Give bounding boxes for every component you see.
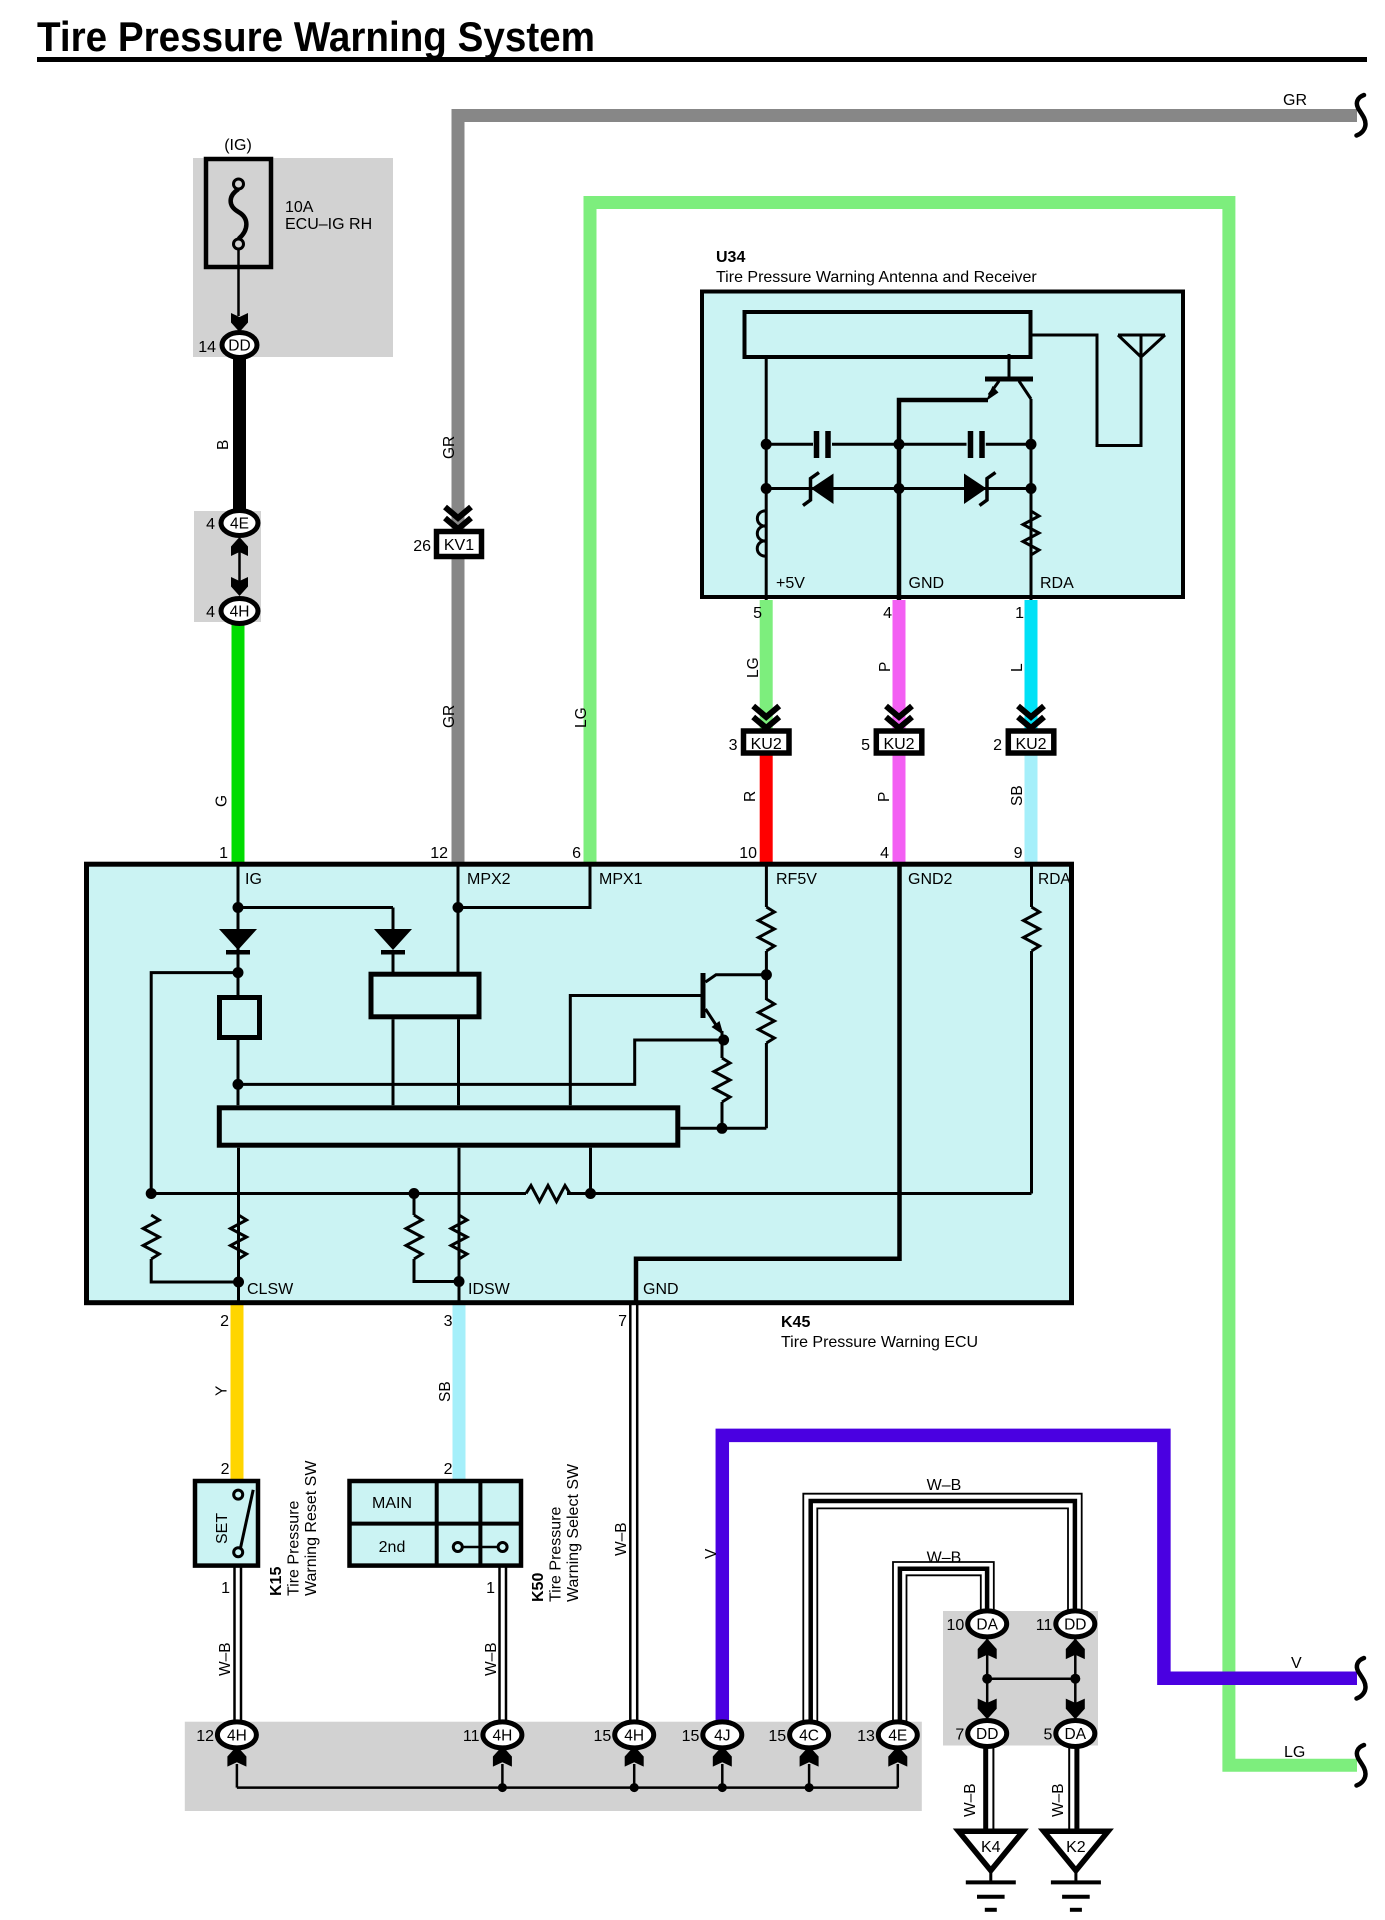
svg-text:DA: DA [976,1616,998,1633]
arrow into KU2 no.3 [753,706,779,728]
svg-text:SET: SET [214,1513,231,1544]
U34 GND vertical line [899,400,988,600]
wire W-B K50 to 11 4H [498,1565,501,1723]
ground K2 symbol [1074,1871,1077,1883]
node CLSW junction [233,1277,244,1288]
svg-text:11: 11 [463,1728,480,1745]
K15 SET switch box [195,1481,258,1566]
wire RDA horizontal row [567,1192,1032,1195]
svg-text:3: 3 [444,1313,453,1330]
svg-text:Tire Pressure: Tire Pressure [548,1506,565,1602]
U34 capacitor C2 [968,431,974,458]
wire LG U34 pin5 to KU2 [760,600,773,731]
connector 15 4J [703,1722,742,1748]
svg-text:LG: LG [745,657,762,678]
connector 4 4H [221,599,258,624]
arrow into DD [231,313,248,332]
svg-text:W–B: W–B [927,1550,962,1567]
connector 5 KU2 [876,731,922,753]
U34 inductor L1 [757,511,766,556]
svg-text:4H: 4H [492,1727,512,1744]
svg-text:14: 14 [198,339,216,356]
connector 15 4C [790,1722,829,1748]
U34 capacitor row line [766,443,813,446]
svg-text:GR: GR [441,436,458,459]
band1 bus junction dots [498,1783,507,1792]
K45 resistor R6 [143,1215,159,1259]
band2 arrows up [978,1639,997,1660]
wire L U34 pin1 to KU2 [1025,600,1038,731]
K45 square block [220,998,260,1038]
gray background behind fuse [193,158,393,357]
U34 transistor Q1 [1008,354,1011,378]
svg-text:W–B: W–B [962,1783,979,1817]
node IG junction 3 [233,1079,244,1090]
svg-text:2: 2 [993,737,1002,754]
svg-text:SB: SB [437,1381,454,1402]
svg-text:SB: SB [1009,785,1026,806]
svg-text:KU2: KU2 [1015,736,1046,753]
svg-text:DD: DD [1064,1616,1086,1633]
node IDSW junction [454,1276,465,1287]
double arrow between 4E and 4H [231,537,248,556]
node IG junction 2 [233,967,244,978]
K50 cell dividers [435,1481,439,1566]
K45 Tire Pressure Warning ECU box [87,864,1072,1302]
K45 GND2 wire [636,866,900,1301]
wire square block to bus [237,1040,240,1105]
U34 antenna symbol [1118,334,1165,337]
K15 contact top [234,1490,243,1499]
svg-text:1: 1 [219,845,228,862]
U34 RDA vertical line [1030,399,1033,600]
svg-text:13: 13 [857,1728,875,1745]
off-page squiggle V [1357,1658,1366,1699]
svg-text:B: B [215,440,232,450]
connector 13 4E [878,1722,917,1748]
svg-text:4: 4 [883,605,892,622]
connector 12 4H [217,1722,256,1748]
wire transistor base to bus [570,996,700,1106]
svg-text:1: 1 [1015,605,1024,622]
svg-text:W–B: W–B [1050,1783,1067,1817]
wire SB (pale blue) IDSW to K50 [453,1305,466,1480]
band2 junction dots [982,1674,992,1684]
svg-text:DA: DA [1065,1726,1087,1743]
connector 11 DD [1056,1611,1095,1637]
node left row junction [146,1188,157,1199]
K45 MPX1 wire [458,866,590,908]
K45 bus bar block [219,1108,678,1145]
svg-text:W–B: W–B [483,1642,500,1676]
svg-text:4E: 4E [230,516,249,533]
svg-text:IDSW: IDSW [468,1281,511,1298]
K50 select switch box [350,1481,522,1566]
wire W-B K15 to 12 4H [233,1565,236,1723]
wire SB KU2 to K45 RDA [1025,752,1038,864]
U34 RDA resistor [1023,511,1039,555]
svg-text:Warning Select SW: Warning Select SW [565,1463,582,1602]
svg-text:CLSW: CLSW [247,1281,294,1298]
wire diode D4 branch vertical [392,908,395,931]
connector 7 DD [968,1721,1007,1747]
node RF5V junction [761,969,772,980]
svg-text:2nd: 2nd [379,1539,406,1556]
svg-text:12: 12 [430,845,448,862]
K45 diode D4 [374,929,412,950]
svg-text:MAIN: MAIN [372,1495,412,1512]
band1 ground bus line [237,1786,898,1789]
svg-text:IG: IG [245,871,262,888]
svg-text:2: 2 [220,1313,229,1330]
svg-text:5: 5 [1043,1727,1052,1744]
connector 26 KV1 [437,532,482,557]
svg-text:W–B: W–B [613,1522,630,1556]
node IG junction 1 [233,902,244,913]
svg-text:RDA: RDA [1038,871,1071,888]
wire V (violet) 4J up, right, down, to off-page [722,1435,1357,1723]
svg-text:4: 4 [206,516,215,533]
svg-text:11: 11 [1036,1617,1053,1634]
ground K4 symbol [989,1871,992,1883]
svg-text:4: 4 [880,845,889,862]
K45 transistor Q2 [701,973,706,1018]
ground K4 triangle [959,1831,1023,1870]
svg-text:1: 1 [486,1580,495,1597]
wire bus to row junction [589,1148,592,1194]
connector 15 4H [615,1722,654,1748]
connector 4 4E [221,511,258,536]
svg-text:KU2: KU2 [883,736,914,753]
gray band bottom-left connector row [185,1722,922,1811]
wires wide block to bus [392,1019,395,1105]
K45 IG vertical wire [237,866,240,996]
fuse terminal top [234,179,244,189]
svg-text:4H: 4H [624,1727,644,1744]
svg-text:26: 26 [413,538,431,555]
svg-text:DD: DD [976,1726,998,1743]
svg-text:Tire Pressure Warning System: Tire Pressure Warning System [37,13,595,60]
svg-text:10: 10 [739,845,757,862]
K15 contact bottom [234,1548,243,1557]
svg-text:6: 6 [572,845,581,862]
K45 diode D3 [219,929,257,950]
svg-text:K45: K45 [781,1314,810,1331]
svg-text:P: P [877,662,894,672]
svg-text:1: 1 [221,1580,230,1597]
arrow into KU2 no.5 [886,706,912,728]
svg-text:12: 12 [196,1728,214,1745]
K50 2nd contact pair [462,1546,498,1549]
wire W-B 5 DA to ground K2 [1068,1747,1070,1832]
K45 resistor R9 [451,1215,467,1259]
U34 capacitor C1 [814,431,820,458]
wire long horizontal to transistor emitter [238,1040,724,1084]
connector 2 KU2 [1008,731,1054,753]
svg-text:4H: 4H [230,604,250,621]
svg-text:2: 2 [444,1461,453,1478]
svg-text:K4: K4 [981,1839,1001,1856]
svg-text:15: 15 [768,1728,786,1745]
svg-text:Warning Reset SW: Warning Reset SW [303,1460,320,1596]
svg-text:GR: GR [1283,92,1307,109]
svg-text:4C: 4C [799,1727,819,1744]
svg-text:V: V [703,1548,720,1559]
svg-text:4E: 4E [888,1727,907,1744]
wire W-B GND pin7 to 15 4H [629,1305,632,1723]
svg-text:K2: K2 [1066,1839,1086,1856]
svg-text:L: L [1009,663,1026,672]
wire P KU2 to K45 GND2 [893,752,906,864]
U34 zener diode D2 [964,474,987,505]
wire IG to diode D4 [238,906,393,909]
node bus drop junction [585,1188,596,1199]
fuse element curve [231,189,247,239]
U34 Tire Pressure Warning Antenna and Receiver box [702,292,1183,598]
K45 RF5V vertical wire [765,866,768,907]
band2 arrows down [978,1699,997,1720]
band1 connector stems [236,1764,239,1788]
connector 10 DA [968,1611,1007,1637]
K15 switch lever [239,1490,253,1553]
svg-text:15: 15 [594,1728,612,1745]
fuse F1 10A ECU-IG RH box [206,159,271,267]
svg-text:2: 2 [221,1461,230,1478]
wire R KU2 to K45 RF5V [760,752,773,864]
svg-text:+5V: +5V [776,575,805,592]
svg-text:15: 15 [682,1728,700,1745]
K45 wide block [371,974,479,1017]
connector 5 DA [1056,1721,1095,1747]
svg-text:W–B: W–B [927,1477,962,1494]
svg-text:ECU–IG RH: ECU–IG RH [285,216,372,233]
svg-text:MPX1: MPX1 [599,871,643,888]
svg-text:10: 10 [947,1617,965,1634]
svg-text:R: R [742,791,759,802]
wire G (green) 4H to K45 IG [232,622,245,864]
svg-text:V: V [1291,1655,1302,1672]
K45 resistor R5 horizontal [526,1186,570,1202]
connector 3 KU2 [744,731,790,753]
svg-text:K15: K15 [268,1567,285,1596]
fuse terminal bottom [234,239,244,249]
svg-text:GND: GND [643,1281,679,1298]
ground K2 triangle [1044,1831,1108,1870]
wire R6 bottom to CLSW node [151,1259,238,1282]
svg-text:3: 3 [729,737,738,754]
node emitter junction [718,1035,729,1046]
gray band DA/DD connector block [943,1611,1098,1746]
svg-text:U34: U34 [716,249,745,266]
node resistor row junction [409,1188,420,1199]
band2 link wires [986,1637,989,1703]
wire branch left from IG junction 2 [151,973,238,1194]
wire GR (gray) from KV1 up and across top [458,116,1357,865]
svg-text:7: 7 [955,1727,964,1744]
wire emitter to junction [721,1031,724,1058]
wire LG (light green) MPX1 up, across top, down right side, to off-page [590,203,1357,1766]
svg-text:KV1: KV1 [444,537,474,554]
svg-text:K50: K50 [530,1573,547,1602]
svg-text:GND: GND [909,575,945,592]
U34 +5V vertical line [765,357,768,600]
svg-text:Y: Y [214,1386,231,1396]
connector 14 DD [222,333,257,358]
wire W-B 7 DD to ground K4 [983,1747,988,1832]
svg-text:Tire Pressure: Tire Pressure [286,1500,303,1596]
K45 resistor R1 [758,907,774,951]
node R3 bottom junction [717,1123,728,1134]
arrow into KU2 no.2 [1018,706,1044,728]
svg-text:RDA: RDA [1040,575,1074,592]
U34 junction dots [761,439,772,450]
wire R2 bottom to bus [680,1127,766,1130]
svg-text:GND2: GND2 [908,871,953,888]
svg-text:LG: LG [573,707,590,728]
K45 resistor R7 [231,1215,247,1259]
off-page squiggle LG [1357,1745,1366,1786]
off-page squiggle GR [1357,95,1366,136]
svg-text:Tire Pressure Warning ECU: Tire Pressure Warning ECU [781,1334,978,1351]
wire Y (yellow) CLSW to SET switch [231,1305,244,1480]
svg-text:RF5V: RF5V [776,871,817,888]
gray background behind 4E/4H connectors [194,511,261,622]
svg-text:7: 7 [618,1313,627,1330]
K45 resistor R2 [758,999,774,1043]
K45 RDA vertical wire [1030,866,1033,907]
U34 zener diode D1 [811,474,834,505]
K45 resistor R4 [1024,907,1040,951]
svg-text:W–B: W–B [217,1642,234,1676]
wire IDSW left branch [413,1194,416,1216]
svg-text:Tire Pressure Warning Antenna: Tire Pressure Warning Antenna and Receiv… [716,269,1037,286]
svg-text:9: 9 [1014,845,1023,862]
svg-text:P: P [876,792,893,802]
wire B (black) DD to 4E [233,356,246,511]
svg-text:5: 5 [861,737,870,754]
wire W-B loop 4C to 11 DD [803,1494,1081,1722]
title underline [37,57,1367,62]
svg-text:LG: LG [1284,1744,1305,1761]
svg-text:4: 4 [206,604,215,621]
U34 antenna feed line [1030,335,1141,446]
svg-text:DD: DD [228,338,250,355]
arrow double chevron into KV1 [445,507,471,529]
svg-text:(IG): (IG) [224,137,252,154]
svg-text:MPX2: MPX2 [467,871,511,888]
svg-text:G: G [214,795,231,807]
K45 IDSW vertical wire [458,1148,461,1301]
wire fuse to DD connector [237,249,240,316]
svg-text:KU2: KU2 [751,736,782,753]
wire W-B loop 4E to 10 DA [893,1562,994,1722]
K45 MPX2 vertical wire [457,866,460,972]
wire R8 bottom to IDSW node [414,1259,459,1282]
U34 IC block [745,312,1031,357]
svg-text:4H: 4H [227,1727,247,1744]
svg-text:GR: GR [441,705,458,728]
connector 11 4H [483,1722,522,1748]
band1 arrows [227,1746,246,1767]
svg-text:4J: 4J [714,1727,730,1744]
node MPX2 junction [453,902,464,913]
K45 resistor R3 below emitter [714,1058,730,1102]
U34 diode row line [766,487,1031,490]
svg-text:5: 5 [753,605,762,622]
wire P U34 pin4 to KU2 [893,600,906,731]
K45 CLSW vertical wire [237,1148,240,1301]
K45 resistor R8 [406,1215,422,1259]
svg-text:10A: 10A [285,199,314,216]
